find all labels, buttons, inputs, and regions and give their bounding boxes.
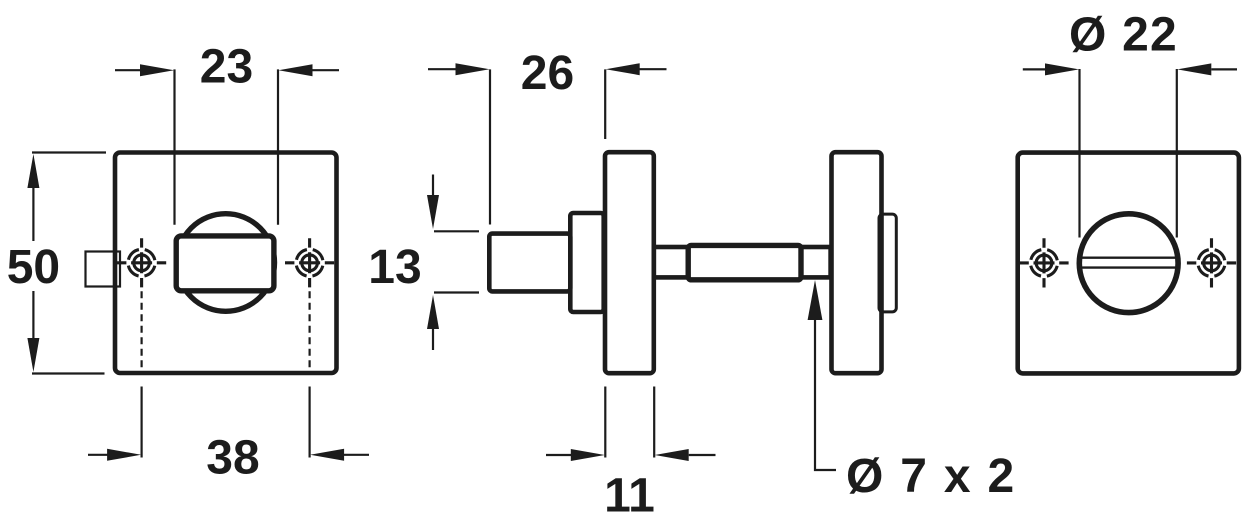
dimension 11: left arrow — [546, 454, 572, 456]
dimension 26: extension lines — [490, 69, 605, 224]
svg-text:50: 50 — [7, 241, 60, 294]
rose plate front (side) — [605, 152, 654, 373]
dimension 50: top arrow (pointing up) — [27, 154, 39, 188]
dimension 50: bottom arrow (pointing down) — [27, 338, 39, 372]
rear fixing collar (thin) — [879, 214, 896, 312]
svg-text:23: 23 — [200, 41, 253, 94]
dimension 50: extension lines — [32, 153, 106, 374]
coin-slot release circle — [1079, 214, 1178, 313]
dimension 50: dimension line (broken by text) — [32, 187, 34, 339]
spindle right step — [801, 247, 831, 277]
svg-text:13: 13 — [368, 241, 421, 294]
svg-text:38: 38 — [206, 431, 259, 484]
svg-text:Ø 7 x 2: Ø 7 x 2 — [846, 450, 1016, 503]
dimension 13: top arrow — [432, 175, 434, 197]
dimension 13: bottom arrow — [432, 329, 434, 350]
spindle left step — [654, 247, 688, 277]
coin slot lines — [1080, 258, 1178, 268]
dimension Ø22: left arrow — [1023, 68, 1046, 70]
knob neck collar — [570, 213, 603, 312]
dimension 38: left arrow — [88, 454, 108, 456]
locating tab (small square on left edge) — [86, 252, 121, 287]
screw hole crosshair (right) — [285, 238, 334, 287]
dimension 11: right arrow — [689, 454, 716, 456]
svg-text:26: 26 — [521, 47, 574, 100]
screw hole crosshair (rear right) — [1187, 238, 1236, 287]
thumbturn grip (side) — [489, 234, 570, 292]
screw hole crosshair (rear left) — [1019, 238, 1068, 287]
svg-text:Ø 22: Ø 22 — [1069, 9, 1178, 62]
dimension 23: left arrow — [115, 69, 141, 71]
dimension 13: extension lines — [434, 231, 479, 292]
dimension Ø22: right arrow — [1211, 68, 1237, 70]
square rose plate (rear view) — [1018, 153, 1239, 374]
screw hole crosshair (left) — [117, 238, 166, 287]
thumbturn circle — [177, 214, 275, 312]
svg-text:11: 11 — [604, 470, 655, 523]
spindle middle section — [688, 245, 801, 279]
dimension 38: right arrow — [344, 454, 369, 456]
dashed centerline below right screw hole — [309, 291, 311, 371]
dimension 23: right arrow — [312, 69, 339, 71]
dimension 38: extension lines — [142, 387, 310, 458]
leader arrow for spindle size (points up to spindle) — [815, 312, 836, 470]
thumbturn grip rectangle — [176, 236, 274, 291]
dimension 23: extension lines — [175, 69, 279, 224]
rose plate rear (side) — [832, 152, 882, 373]
dashed centerline below left screw hole — [141, 291, 143, 371]
dimension 11: extension lines — [605, 387, 654, 458]
dimension 26: left arrow — [428, 68, 457, 70]
dimension 26: right arrow — [639, 68, 667, 70]
square rose plate (front view) — [115, 153, 337, 374]
dimension Ø22: extension lines — [1080, 69, 1177, 238]
